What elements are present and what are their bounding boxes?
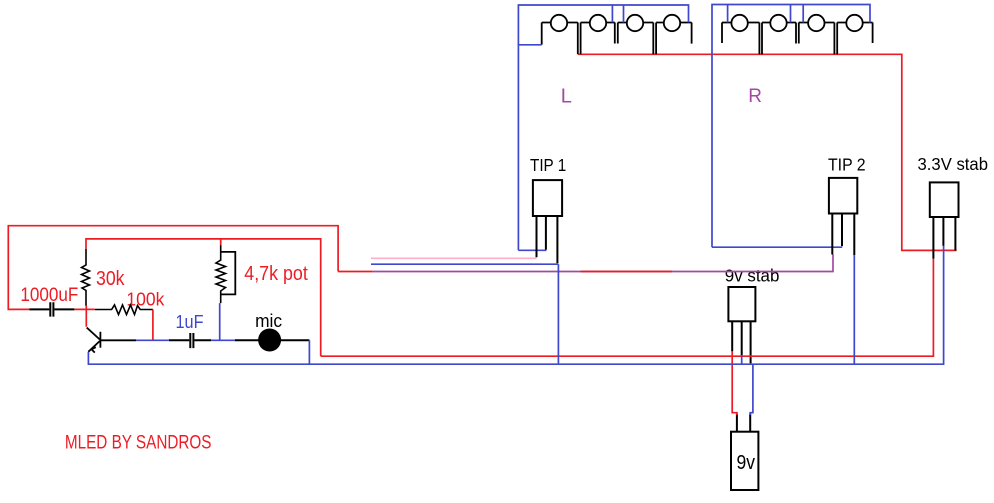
wire purple signal line to TIP2 base <box>373 255 833 272</box>
LED D1 (L) <box>542 15 578 45</box>
wire red overlay on purple line <box>581 271 673 273</box>
svg-text:TIP 2: TIP 2 <box>828 154 866 174</box>
wire mic leads <box>235 339 310 341</box>
wire blue emitter line to TIP1 <box>371 264 558 364</box>
microphone MK1 <box>258 329 281 352</box>
regulator U3 3.3V stab <box>930 182 959 258</box>
wire blue bottom bus <box>88 246 943 364</box>
transistor U1 TIP 1 <box>533 180 562 263</box>
svg-text:MLED BY SANDROS: MLED BY SANDROS <box>65 432 212 454</box>
wire red top bus from LED groups to 3.3V stab input <box>578 54 957 250</box>
LED D6 (R) <box>759 15 796 55</box>
wire blue pot down to emitter line <box>219 303 221 340</box>
wire blue mic down to bus <box>308 340 310 364</box>
svg-text:TIP 1: TIP 1 <box>530 155 566 175</box>
wire pink to TIP1 base <box>371 257 537 259</box>
LED group R top rail (blue) <box>712 5 870 248</box>
transistor Q1 <box>87 328 137 353</box>
transistor U2 TIP 2 <box>829 178 857 255</box>
svg-text:1uF: 1uF <box>176 312 204 332</box>
wire red inner loop (30k / pot rail) <box>86 239 321 356</box>
wire blue TIP2 collector connect <box>712 246 842 248</box>
wire blue segments on Q1 emitter line <box>136 339 234 341</box>
battery BT1 9v <box>731 432 758 490</box>
capacitor C2 1uF <box>169 333 211 348</box>
LED D2 (L) <box>578 15 615 55</box>
wire red cap to base junction <box>74 306 94 327</box>
LED D5 (R) <box>722 15 759 43</box>
LED D8 (R) <box>834 15 872 55</box>
wire blue 9v stab mid stub <box>741 356 743 364</box>
LED D7 (R) <box>796 15 834 44</box>
LED D4 (L) <box>653 15 691 55</box>
wire red outer loop top-left <box>8 226 338 310</box>
svg-text:4,7k pot: 4,7k pot <box>244 262 308 285</box>
svg-text:R: R <box>748 86 762 107</box>
wire blue TIP2 emitter down <box>853 255 855 364</box>
svg-text:100k: 100k <box>126 289 165 310</box>
svg-text:3.3V stab: 3.3V stab <box>918 154 989 174</box>
LED D3 (L) <box>615 15 654 44</box>
LED group L top rail (blue) <box>518 5 688 250</box>
svg-text:9v: 9v <box>737 452 756 474</box>
wire blue TIP1 collector connect <box>518 249 546 251</box>
regulator U4 9v stab <box>728 287 755 363</box>
wire red overlay start segment (left of purple) <box>338 271 373 273</box>
wire red 100k to emitter line <box>152 310 154 341</box>
wire red bottom bus <box>321 259 934 356</box>
resistor R1 30k <box>82 249 90 306</box>
svg-text:mic: mic <box>255 311 282 331</box>
svg-text:9v stab: 9v stab <box>725 266 780 286</box>
svg-text:30k: 30k <box>96 267 125 290</box>
capacitor C1 1000uF <box>29 302 74 316</box>
svg-text:L: L <box>561 86 572 108</box>
battery BT1 leads <box>737 414 750 432</box>
wire red 9v stab to battery <box>732 351 737 415</box>
resistor R2 100k <box>95 305 153 315</box>
wire blue 9v stab to battery <box>750 364 753 415</box>
wire red pot stub <box>220 239 222 245</box>
potentiometer R3 4,7k pot <box>216 245 235 303</box>
